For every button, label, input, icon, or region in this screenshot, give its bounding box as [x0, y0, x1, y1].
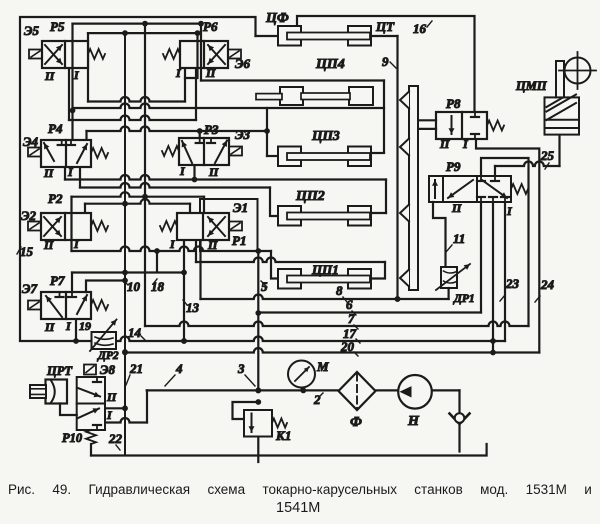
cylinder ЦМП piston [545, 119, 580, 121]
svg-text:II: II [208, 165, 220, 179]
svg-text:Р3: Р3 [204, 122, 219, 137]
wire: Р1 port A to ЦП1 right (under-line) [195, 238, 197, 262]
bus vertical x=145 [144, 24, 146, 326]
svg-text:Р10: Р10 [62, 431, 83, 445]
svg-text:Р4: Р4 [48, 121, 63, 136]
svg-text:II: II [106, 390, 118, 404]
wire: К1 drain [257, 436, 259, 462]
svg-text:Р5: Р5 [50, 19, 65, 34]
svg-text:ЦП4: ЦП4 [315, 57, 345, 72]
svg-text:I: I [506, 204, 513, 218]
wire: port line through Р5 [71, 41, 73, 67]
valve Р9 spring [511, 184, 528, 194]
valve Р3 body [179, 138, 229, 165]
svg-text:Р8: Р8 [446, 96, 461, 111]
wire: Р6 through port line a [196, 33, 198, 78]
wire: Р5 through port line down to Р4 top [71, 24, 73, 138]
svg-text:10: 10 [127, 279, 141, 294]
svg-text:I: I [106, 408, 113, 422]
valve Р9 body [429, 176, 511, 202]
svg-text:ЦП1: ЦП1 [311, 262, 339, 277]
cylinder ЦМП spring [547, 103, 577, 120]
svg-text:Э3: Э3 [235, 127, 250, 142]
wire: line 14/17 [20, 337, 505, 342]
valve Р4 body [41, 140, 91, 167]
svg-text:II: II [207, 238, 219, 252]
solenoid of Р5 [29, 50, 42, 59]
wire: line y251 under Р2/Р1 [72, 247, 272, 252]
wire: Р3 bottom stub [193, 164, 195, 180]
svg-text:14: 14 [128, 325, 142, 340]
svg-text:ДР1: ДР1 [453, 293, 475, 305]
enclosure box of Р1 [200, 199, 258, 251]
svg-text:II: II [205, 66, 217, 80]
svg-text:II: II [44, 69, 56, 83]
wheel of ЦМП [565, 58, 591, 84]
cylinder ЦРТ [46, 380, 68, 404]
bar nozzle triangle 2 [400, 139, 409, 156]
svg-text:I: I [65, 319, 72, 333]
svg-text:ЦП2: ЦП2 [295, 189, 325, 204]
valve Р7 spring [91, 300, 108, 310]
wire: Р8 left ports to bar [419, 119, 436, 121]
wire: ЦП4 body bottom / line from Р5 [73, 104, 385, 109]
valve Р10 arrows [78, 388, 100, 397]
bar nozzle triangle 3 [400, 205, 409, 222]
valve Р3 spring [162, 146, 179, 156]
valve Р6 spring [163, 49, 180, 59]
wire: Р4 bottom to ЦП2 left [79, 166, 81, 188]
svg-text:3: 3 [237, 361, 245, 376]
svg-text:25: 25 [540, 148, 555, 163]
svg-text:II: II [451, 201, 463, 215]
throttle ДР1 [441, 267, 457, 288]
solenoid of Р3 [229, 147, 242, 156]
cylinder ЦП2 [278, 206, 301, 226]
svg-text:ЦФ: ЦФ [265, 11, 289, 26]
valve Р7 body [41, 292, 91, 319]
valve Р6 cross arrows [208, 45, 225, 64]
svg-text:I: I [179, 164, 186, 178]
wire: ДР1 to line 8 [448, 288, 450, 299]
wire: line 23 [481, 158, 529, 326]
valve Р3 arrows [182, 141, 192, 163]
wire: vertical 18 [156, 251, 158, 272]
wire: ЦРТ to Р10 [60, 404, 77, 416]
valve Р9 blocked ports [480, 176, 482, 181]
svg-text:16: 16 [413, 21, 427, 36]
valve Р2 body [41, 213, 91, 240]
wire: line 8 from Р1 port B to ДР1 [199, 238, 201, 299]
svg-text:Э2: Э2 [21, 208, 36, 223]
wire: К1 pilot [233, 402, 259, 419]
svg-text:II: II [43, 166, 55, 180]
svg-text:15: 15 [20, 244, 34, 259]
svg-text:ЦМП: ЦМП [515, 79, 548, 93]
solenoid of Р10 (Э8) [84, 365, 96, 375]
svg-text:Р1: Р1 [232, 233, 246, 248]
solenoid of Р2 [28, 222, 41, 231]
wire: line 9 from ЦТ right port down to line 8 [371, 35, 398, 37]
wire: Р4 right top loop (line 131) [85, 131, 87, 138]
svg-text:8: 8 [336, 283, 343, 298]
valve Р6 body [180, 41, 228, 68]
wire: Р9 to ДР1 (line 11) [433, 202, 446, 267]
solenoid of Р7 [28, 301, 41, 310]
svg-text:Р9: Р9 [446, 159, 461, 174]
svg-text:2: 2 [313, 392, 321, 407]
valve Р5 spring [88, 49, 105, 59]
svg-text:Э6: Э6 [235, 56, 250, 71]
bus 10 vertical x=125 [124, 33, 126, 455]
wire: port line through Р2 [70, 213, 72, 239]
svg-text:ЦТ: ЦТ [375, 19, 395, 34]
valve Р5 cross arrows [45, 45, 62, 64]
wire: Р5 inner loop [87, 33, 89, 101]
svg-text:Ф: Ф [350, 415, 362, 430]
throttle ДР2 [92, 332, 117, 349]
svg-text:20: 20 [340, 339, 355, 354]
wire: line 4 Р10 to pump line [105, 418, 147, 422]
valve Р8 blocked ports [474, 112, 476, 117]
valve Р4 spring [91, 148, 108, 158]
valve Р9 diagonal arrow II [448, 180, 473, 198]
valve Р10 spring [86, 430, 96, 444]
valve К1 spring [272, 419, 287, 428]
filter Ф [339, 372, 376, 410]
valve Р1 cross arrows [208, 217, 225, 236]
valve Р10 body [77, 377, 105, 430]
distributor bar [409, 86, 418, 290]
svg-text:Р6: Р6 [203, 19, 218, 34]
valve Р8 body [436, 112, 487, 139]
svg-text:ДР2: ДР2 [97, 350, 119, 362]
wire: Р5 second bottom port loop [68, 67, 70, 120]
svg-text:18: 18 [151, 279, 165, 294]
svg-text:Э8: Э8 [100, 362, 115, 377]
cylinder ЦФ-ЦТ [278, 26, 301, 46]
cylinder ЦП4 body [201, 79, 384, 81]
valve Р7 arrows [46, 296, 62, 317]
manometer М [288, 361, 315, 388]
svg-text:11: 11 [453, 231, 465, 246]
wire: line 20 [125, 348, 539, 352]
wire: Р6 small loop [185, 67, 196, 78]
valve Р2 cross arrows [44, 217, 61, 236]
solenoid of Р6 [228, 50, 241, 59]
svg-text:I: I [73, 68, 80, 82]
wire: line 179 under ЦП3 [64, 166, 66, 180]
svg-text:Р7: Р7 [50, 273, 65, 288]
wire: Р7 bottom port [75, 320, 77, 341]
valve Р3 blocked ports [199, 138, 201, 143]
wire: line y204 [85, 199, 190, 203]
vertical 13 from Р1 [183, 238, 185, 341]
pump Н [398, 375, 432, 409]
wire: Р8 outlet to line 24 [476, 139, 539, 353]
valve Р8 spring [487, 121, 504, 131]
wire: tank line [91, 444, 487, 456]
wire: line y197 [72, 192, 205, 197]
svg-text:22: 22 [108, 431, 123, 446]
svg-text:Э4: Э4 [23, 134, 38, 149]
cylinder ЦП1 [278, 269, 301, 289]
wire: check valve stem [458, 424, 460, 452]
wire: ЦП3 left feed from ЦП4 bottom [266, 108, 268, 156]
svg-text:Э1: Э1 [233, 200, 248, 215]
svg-text:II: II [44, 320, 56, 334]
relief valve К1 [244, 410, 272, 437]
bar nozzle triangle 1 [400, 92, 409, 109]
svg-text:II: II [43, 238, 55, 252]
svg-text:19: 19 [79, 319, 91, 333]
wire: port lines through Р6 [196, 41, 198, 67]
valve Р8 arrow [451, 116, 453, 134]
cylinder ЦП3 [278, 147, 301, 167]
solenoid of Р4 [28, 148, 41, 157]
svg-text:ЦРТ: ЦРТ [46, 364, 73, 378]
check valve [450, 414, 470, 425]
wire: ЦП2 right port wire up to line 179 [371, 212, 386, 214]
svg-text:6: 6 [346, 297, 353, 312]
valve Р7 blocked ports [59, 292, 61, 297]
svg-text:9: 9 [382, 54, 389, 69]
wire: Р7 top port a [71, 273, 73, 293]
valve Р4 blocked ports [61, 140, 63, 145]
svg-text:Н: Н [407, 414, 420, 429]
wire: Р10 to bus [105, 407, 125, 409]
svg-text:II: II [439, 137, 451, 151]
svg-text:13: 13 [186, 300, 200, 315]
valve Р9 left arrow [434, 180, 436, 198]
cylinder ЦП4 blocks [280, 87, 303, 105]
valve Р5 body [42, 41, 88, 68]
wire: Р3 top feed [199, 131, 201, 138]
svg-text:24: 24 [540, 277, 555, 292]
valve Р4 arrows [44, 143, 54, 161]
svg-text:21: 21 [129, 361, 143, 376]
wire: vertical 3/5 from box to pump line [257, 251, 259, 390]
wire: Р9 port vertical c [504, 202, 506, 341]
svg-text:23: 23 [505, 276, 520, 291]
cylinder ЦМП rod [555, 61, 557, 97]
wire: ЦП3 right port wire [371, 152, 384, 154]
wire: line 6 [258, 311, 481, 313]
wire: feed into ЦФ left port [256, 35, 279, 37]
wire: line 7 [145, 322, 529, 327]
cylinder ЦМП body [545, 97, 580, 134]
svg-text:Э5: Э5 [24, 23, 39, 38]
wire: top harness line y33 [88, 32, 198, 34]
bar nozzle triangle 4 [400, 270, 409, 287]
wire: top harness line y24 [73, 23, 202, 25]
wire: Р10 drain [90, 444, 92, 456]
wire: Р9 port vertical b [492, 202, 494, 353]
solenoid of Р1 [229, 222, 242, 231]
valve Р2 spring [91, 221, 108, 231]
svg-text:Р2: Р2 [48, 191, 63, 206]
svg-text:М: М [316, 359, 329, 374]
svg-text:Э7: Э7 [22, 281, 37, 296]
svg-text:I: I [169, 237, 176, 251]
wire: pump pressure line [147, 389, 460, 391]
wire: left border / return line to ЦФ [20, 17, 256, 340]
wire: Р7 top port b [86, 281, 125, 293]
valve Р9 diagonal arrow I [482, 180, 507, 198]
wire: line y272 from Р7 across bus [72, 271, 184, 273]
valve Р1 body [177, 213, 229, 240]
wire: Р6 port line b into ЦП4 body top [200, 24, 202, 81]
svg-text:ЦП3: ЦП3 [311, 128, 340, 143]
svg-text:К1: К1 [275, 428, 291, 443]
wire: line 16 from ЦТ top to Р8 top port [297, 16, 475, 112]
wire: line 25 ЦМП to Р9 [558, 135, 560, 166]
svg-text:4: 4 [175, 361, 183, 376]
valve Р1 spring [160, 221, 177, 231]
svg-text:7: 7 [348, 311, 355, 326]
